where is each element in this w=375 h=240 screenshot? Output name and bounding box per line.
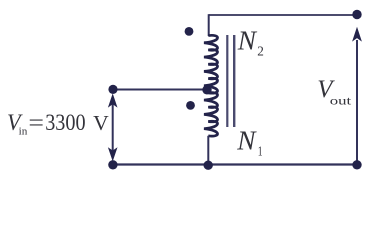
wire coil bottom stub — [207, 136, 209, 165]
wire tap horizontal — [113, 89, 207, 91]
arrow Vin head bottom (down) — [108, 147, 118, 161]
wire corner stub down to coil top — [208, 14, 210, 36]
inductor coil L1 (autotransformer winding) — [204, 35, 218, 136]
svg-text:1: 1 — [258, 143, 263, 158]
node bottom-left (Vin-) — [108, 160, 117, 169]
svg-text:N: N — [237, 25, 258, 56]
node top-right — [352, 10, 361, 19]
svg-text:=: = — [28, 110, 44, 136]
node bottom-right — [352, 160, 361, 169]
transformer core line left — [226, 35, 228, 127]
svg-text:2: 2 — [257, 43, 264, 58]
arrow Vin shaft — [112, 99, 114, 154]
label Vin value — [7, 110, 109, 138]
wire bottom horizontal — [113, 163, 357, 165]
node coil tap — [202, 85, 211, 94]
svg-text:in: in — [19, 126, 28, 137]
label Vout — [317, 74, 352, 107]
svg-text:N: N — [236, 125, 257, 156]
svg-text:3300: 3300 — [45, 110, 85, 136]
arrow Vout shaft — [356, 40, 358, 165]
wire top horizontal — [209, 14, 357, 16]
node top-left (Vin+) — [108, 85, 117, 94]
svg-text:out: out — [330, 93, 352, 107]
label N2 — [237, 25, 264, 59]
arrow Vin head top (up) — [108, 93, 118, 107]
arrow Vout head (up) — [352, 27, 362, 42]
transformer core line right — [233, 35, 235, 127]
svg-text:V: V — [93, 111, 109, 135]
label N1 — [236, 125, 262, 159]
node coil bottom — [204, 161, 213, 170]
polarity dot lower winding — [186, 101, 195, 110]
polarity dot upper winding — [185, 27, 194, 36]
